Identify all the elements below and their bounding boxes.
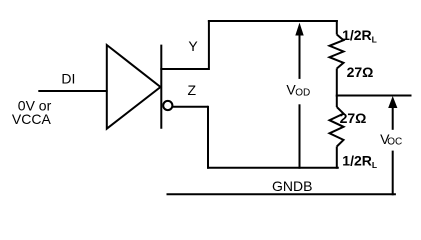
driver U1 triangle bbox=[107, 45, 161, 129]
resistor RL2 top lead bbox=[336, 96, 338, 108]
wire GNDB rail bbox=[167, 193, 396, 195]
resistor RL1 zigzag bbox=[330, 35, 344, 69]
wire Y riser bbox=[208, 20, 210, 70]
svg-text:27Ω: 27Ω bbox=[347, 64, 374, 80]
svg-text:VOC: VOC bbox=[380, 131, 402, 148]
driver output bar bbox=[160, 45, 162, 129]
VOC measure shaft upper bbox=[392, 106, 394, 130]
label 0V or VCCA bbox=[12, 97, 52, 127]
svg-text:Z: Z bbox=[188, 82, 197, 98]
svg-text:Y: Y bbox=[188, 38, 198, 54]
svg-text:1/2RL: 1/2RL bbox=[342, 153, 377, 170]
VOC measure shaft lower bbox=[392, 151, 394, 196]
resistor RL2 zigzag bbox=[330, 107, 344, 147]
VOC measure arrowhead bbox=[388, 96, 397, 108]
svg-text:VCCA: VCCA bbox=[12, 111, 52, 127]
svg-text:DI: DI bbox=[61, 71, 75, 87]
resistor RL2 bottom lead bbox=[336, 147, 338, 169]
svg-text:VOD: VOD bbox=[286, 82, 310, 99]
resistor RL1 top lead bbox=[336, 20, 338, 35]
wire Z drop bbox=[207, 106, 209, 169]
wire Z stub bbox=[172, 106, 208, 108]
VOD measure arrowhead bbox=[295, 23, 303, 36]
inversion bubble on Z output bbox=[163, 101, 172, 110]
svg-text:1/2RL: 1/2RL bbox=[342, 27, 377, 44]
wire Y stub bbox=[160, 68, 209, 70]
wire bottom rail Z net bbox=[207, 167, 339, 169]
VOD measure shaft upper bbox=[299, 33, 301, 79]
VOD measure shaft lower bbox=[299, 104, 301, 168]
svg-text:GNDB: GNDB bbox=[272, 178, 312, 194]
wire top rail Y net bbox=[208, 20, 338, 22]
svg-text:27Ω: 27Ω bbox=[340, 110, 367, 126]
wire center tap bbox=[336, 95, 412, 97]
resistor RL1 bottom lead bbox=[336, 69, 338, 97]
wire DI input bbox=[38, 90, 107, 92]
